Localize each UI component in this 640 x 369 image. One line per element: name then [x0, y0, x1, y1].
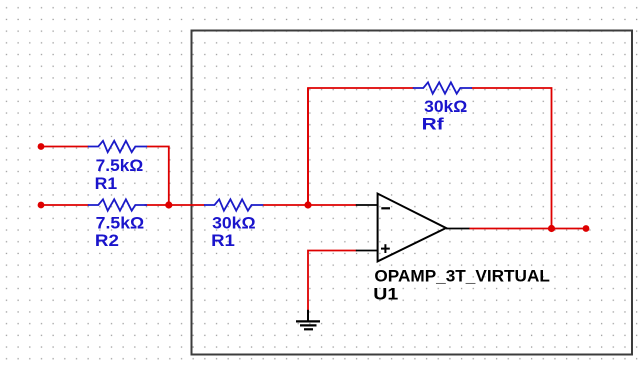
- resistor R2 7.5k (second row): [88, 199, 147, 210]
- wire: non-inverting input from ground riser: [308, 251, 357, 311]
- ground symbol: [296, 310, 320, 330]
- wire: R1 right to corner, down to row 2 junction: [147, 147, 169, 206]
- wire: input B horizontal to R2: [41, 204, 89, 206]
- node: junction inverting input / feedback: [304, 201, 311, 208]
- svg-text:30kΩ: 30kΩ: [424, 98, 467, 116]
- op-amp non-inverting input lead: [356, 250, 378, 252]
- svg-text:Rf: Rf: [422, 116, 445, 134]
- node: input B terminal dot: [38, 202, 45, 209]
- op-amp inverting input lead: [356, 204, 378, 206]
- svg-text:OPAMP_3T_VIRTUAL: OPAMP_3T_VIRTUAL: [374, 267, 550, 285]
- svg-text:R2: R2: [95, 232, 119, 250]
- svg-text:R1: R1: [211, 232, 235, 250]
- node: input A terminal dot: [38, 143, 45, 150]
- wire: op-amp output to right terminal: [469, 228, 586, 230]
- resistor R1 7.5k (top row): [88, 141, 147, 152]
- wire: 30k R1 right to op-amp inverting input: [263, 204, 357, 206]
- schematic border frame: [192, 31, 633, 355]
- svg-text:7.5kΩ: 7.5kΩ: [96, 215, 145, 233]
- wire: feedback top left to Rf: [308, 88, 414, 205]
- op-amp minus sign: [381, 207, 390, 209]
- node: output terminal dot: [583, 225, 590, 232]
- wire: Rf right, down to output: [472, 88, 552, 229]
- resistor R1 30k (series input): [204, 199, 263, 210]
- svg-text:30kΩ: 30kΩ: [212, 215, 256, 233]
- op-amp U1 triangle: [378, 194, 446, 262]
- op-amp plus sign: [381, 244, 390, 253]
- resistor Rf 30k (feedback): [413, 82, 472, 93]
- svg-text:R1: R1: [95, 175, 118, 193]
- svg-text:7.5kΩ: 7.5kΩ: [96, 157, 144, 175]
- wire: R2 right to 30k R1 left: [145, 204, 205, 206]
- node: junction output / feedback: [548, 225, 555, 232]
- svg-text:U1: U1: [373, 285, 398, 303]
- wire: feedback vertical left: [307, 88, 309, 205]
- op-amp output lead: [446, 228, 469, 230]
- node: junction R1/R2 row2: [165, 201, 172, 208]
- wire: input A horizontal to R1: [41, 146, 89, 148]
